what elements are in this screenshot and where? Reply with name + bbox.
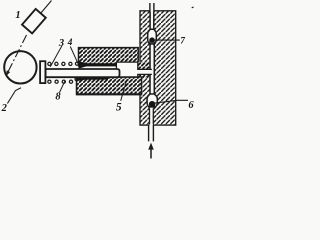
bottom pipe [149, 124, 154, 141]
vertical channel white [150, 44, 154, 96]
wall filler between chamber and right block [133, 62, 151, 78]
svg-text:6: 6 [188, 100, 194, 111]
centerline arrowhead [6, 70, 10, 76]
leader for label 7 [155, 39, 180, 41]
leader for label 2 [7, 88, 21, 104]
inlet arrow [148, 143, 154, 159]
leader for label 6 [154, 100, 188, 103]
spool rod 5 [46, 69, 120, 77]
svg-text:5: 5 [116, 101, 122, 113]
leader for label 3 [50, 46, 62, 67]
lower gland (black bar) [76, 75, 108, 81]
svg-text:8: 8 [55, 92, 61, 103]
outlet channel below bottom valve [150, 108, 153, 126]
leader for label 8 [60, 80, 66, 92]
svg-text:7: 7 [180, 36, 185, 46]
lower block top edge right of gland [108, 76, 142, 78]
spring bottom coils (8) [48, 78, 78, 84]
svg-text:2: 2 [1, 103, 8, 114]
lever centerline (dash-dot) [6, 35, 26, 75]
spool chamber and passage to channel [116, 62, 152, 77]
lever centerline upper segment [41, 1, 52, 14]
top pipe [150, 3, 154, 11]
svg-text:3: 3 [58, 38, 64, 49]
lower housing block bottom edge [77, 93, 142, 95]
follower plate [40, 61, 45, 83]
right valve block (hatched body) [140, 11, 176, 125]
cam circle 2 [4, 51, 36, 83]
upper gland (black bar) [78, 61, 116, 68]
bottom valve seat [149, 106, 156, 109]
top valve bulb [148, 29, 157, 44]
lever handle 1 [22, 9, 46, 33]
bore between blocks (white) [74, 66, 117, 76]
ball valve 7 [149, 37, 155, 43]
leader for label 4 [70, 47, 78, 65]
svg-text:1: 1 [15, 10, 20, 21]
ball valve 6 [149, 101, 156, 108]
upper housing block [79, 48, 139, 66]
spring top coils (3) [48, 62, 79, 65]
svg-text:4: 4 [67, 38, 73, 48]
stray mark top right [192, 6, 194, 9]
leader for label 5 [121, 80, 127, 101]
top valve seat [149, 42, 156, 45]
vertical channel walls [150, 44, 154, 95]
top inlet channel in block [150, 10, 153, 30]
bottom valve bulb [147, 94, 157, 108]
lower housing block [77, 77, 142, 95]
